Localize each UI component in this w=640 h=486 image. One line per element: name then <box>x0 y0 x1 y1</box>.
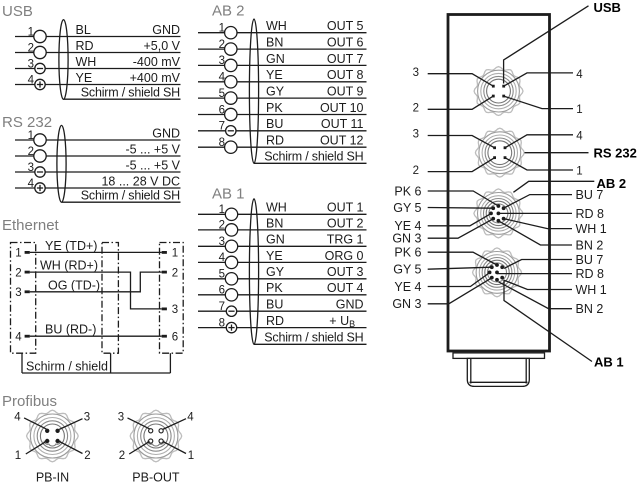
device AB2 pin 6 leader <box>428 191 499 206</box>
AB2 pin 7 wire <box>198 130 367 132</box>
AB1 cable shield ellipse <box>249 199 258 345</box>
svg-text:PK 6: PK 6 <box>394 184 421 198</box>
Ethernet right pin 3 contact <box>162 308 167 311</box>
svg-text:RS 232: RS 232 <box>2 114 52 131</box>
svg-text:2: 2 <box>119 450 125 462</box>
svg-text:1: 1 <box>15 248 21 260</box>
svg-text:3: 3 <box>84 411 90 423</box>
svg-text:GND: GND <box>152 126 180 140</box>
svg-text:3: 3 <box>15 287 21 299</box>
AB2 shield wire <box>254 162 367 164</box>
device RS232 pin 1 leader <box>505 158 573 170</box>
device AB2 pin 1 leader <box>504 219 572 229</box>
svg-text:8: 8 <box>219 317 225 329</box>
RS232 pin 4 contact circle <box>35 183 45 193</box>
device USB pin 4 leader <box>504 73 573 86</box>
svg-text:2: 2 <box>28 42 34 54</box>
PB-OUT pin 4 leader <box>163 419 186 430</box>
svg-text:BU (RD-): BU (RD-) <box>45 323 96 337</box>
svg-text:+ UB: + UB <box>329 314 355 329</box>
Ethernet wire WH (RD+) pin2-pin3 crossover <box>30 272 162 309</box>
device USB connector <box>474 67 523 116</box>
svg-text:OUT 10: OUT 10 <box>320 101 364 115</box>
device AB1 pin 1 leader <box>504 280 572 289</box>
AB2 pin 7 contact circle <box>226 126 236 136</box>
svg-text:GY: GY <box>266 265 285 279</box>
svg-text:18 ... 28 V DC: 18 ... 28 V DC <box>101 174 180 188</box>
svg-text:Profibus: Profibus <box>2 393 57 410</box>
svg-text:BN: BN <box>266 36 283 50</box>
device AB2 connector <box>474 189 523 238</box>
svg-text:OUT 7: OUT 7 <box>327 52 364 66</box>
svg-text:4: 4 <box>187 411 194 423</box>
device AB2 pin 5 leader <box>428 207 494 210</box>
svg-text:4: 4 <box>15 331 22 343</box>
svg-text:OUT 1: OUT 1 <box>327 201 364 215</box>
RS232 cable shield ellipse <box>57 125 66 202</box>
device AB2 pin 3 leader <box>428 219 494 238</box>
svg-text:TRG 1: TRG 1 <box>327 233 364 247</box>
RS232 pin 4 plus symbol <box>37 187 43 189</box>
AB2 pin 1 wire <box>198 32 367 34</box>
svg-text:6: 6 <box>172 331 178 343</box>
USB pin 4 plus symbol <box>37 84 43 86</box>
svg-text:4: 4 <box>576 69 583 81</box>
PB-IN pin 2 leader <box>59 441 82 453</box>
PB-IN pin 3 leader <box>59 419 82 430</box>
PB-IN pin 2 <box>55 439 59 443</box>
svg-text:5: 5 <box>219 269 225 281</box>
svg-text:BU 7: BU 7 <box>576 188 604 202</box>
AB1 shield wire <box>254 343 367 345</box>
svg-text:AB 1: AB 1 <box>212 186 245 203</box>
device RS232 label leader <box>525 152 589 154</box>
svg-text:WH 1: WH 1 <box>576 222 607 236</box>
svg-text:PK: PK <box>266 101 283 115</box>
svg-text:USB: USB <box>594 0 621 15</box>
svg-text:OUT 11: OUT 11 <box>321 117 364 131</box>
svg-text:7: 7 <box>219 301 225 313</box>
device AB1 pin 8 leader <box>497 273 572 275</box>
AB1 pin 3 contact circle <box>225 240 237 252</box>
AB1 pin 3 wire <box>198 245 367 247</box>
svg-text:3: 3 <box>219 236 225 248</box>
svg-text:2: 2 <box>413 165 419 177</box>
svg-text:BN: BN <box>266 216 283 230</box>
Ethernet middle coupler box <box>102 243 118 354</box>
AB2 pin 2 contact circle <box>225 43 237 55</box>
svg-text:OUT 9: OUT 9 <box>327 85 364 99</box>
svg-text:BL: BL <box>76 23 91 37</box>
svg-text:2: 2 <box>413 103 419 115</box>
PB-OUT pin 1 leader <box>163 441 186 453</box>
Ethernet wire YE (TD+) pin1-pin1 <box>30 251 162 253</box>
svg-text:ORG 0: ORG 0 <box>325 249 364 263</box>
device body outline <box>448 15 550 352</box>
svg-text:OUT 5: OUT 5 <box>327 19 364 33</box>
RS232 pin 2 contact circle <box>34 150 46 162</box>
svg-text:GND: GND <box>152 23 180 37</box>
device plug bottom line <box>470 381 528 383</box>
USB pin 3 contact circle <box>35 63 45 73</box>
RS232 shield wire <box>62 201 181 203</box>
USB pin 3 minus symbol <box>37 68 43 70</box>
AB2 pin 6 wire <box>198 114 367 116</box>
device AB2 pin 2 leader <box>498 221 572 245</box>
svg-text:RD: RD <box>266 134 284 148</box>
device AB1 pin 2 leader <box>499 282 573 309</box>
Ethernet left connector box <box>11 243 36 354</box>
svg-text:WH 1: WH 1 <box>576 283 607 297</box>
Ethernet shield wire right drop <box>169 353 171 373</box>
device AB1 pin 4 leader <box>428 273 490 287</box>
svg-text:OUT 8: OUT 8 <box>327 68 364 82</box>
svg-text:3: 3 <box>413 129 419 141</box>
svg-text:3: 3 <box>118 411 124 423</box>
svg-text:GY 5: GY 5 <box>393 263 421 277</box>
svg-text:1: 1 <box>172 248 178 260</box>
Ethernet shield wire left drop <box>21 353 23 373</box>
Profibus PB-OUT connector body <box>130 410 182 462</box>
AB2 cable shield ellipse <box>249 19 258 163</box>
device AB1 pin 5 leader <box>428 267 492 269</box>
svg-text:1: 1 <box>576 166 582 178</box>
PB-IN pin 4 leader <box>24 418 46 429</box>
Ethernet shield wire horizontal <box>22 372 170 374</box>
device USB pin 1 leader <box>504 96 573 109</box>
AB2 pin 7 minus symbol <box>228 130 234 132</box>
RS232 pin 1 contact circle <box>34 134 46 146</box>
svg-text:BU 7: BU 7 <box>576 253 604 267</box>
AB1 pin 6 wire <box>198 294 367 296</box>
svg-text:GN 3: GN 3 <box>392 297 421 311</box>
svg-text:OUT 12: OUT 12 <box>320 134 364 148</box>
PB-IN pin 3 <box>55 429 59 433</box>
RS232 pin 3 wire <box>15 171 181 173</box>
svg-text:AB 2: AB 2 <box>212 3 245 20</box>
svg-text:RD 8: RD 8 <box>576 267 605 281</box>
svg-text:3: 3 <box>28 58 34 70</box>
device AB2 pin 8 leader <box>498 212 572 214</box>
svg-text:2: 2 <box>84 450 90 462</box>
device AB1 label leader <box>504 280 592 362</box>
AB1 pin 7 contact circle <box>226 306 236 316</box>
AB2 pin 3 wire <box>198 64 367 66</box>
device AB2 pin 4 leader <box>428 214 491 226</box>
svg-text:1: 1 <box>576 104 582 116</box>
svg-text:GY: GY <box>266 85 285 99</box>
Ethernet shield wire middle drop <box>110 353 112 373</box>
AB1 pin 1 contact circle <box>225 208 237 220</box>
AB2 pin 1 contact circle <box>225 27 237 39</box>
Ethernet wire OG (TD-) pin3-pin2 crossover <box>30 272 162 292</box>
svg-text:1: 1 <box>28 130 34 142</box>
PB-OUT pin 2 <box>149 439 153 443</box>
AB1 pin 5 contact circle <box>225 273 237 285</box>
svg-text:PK: PK <box>266 281 283 295</box>
Ethernet wire BU (RD-) pin4-pin6 <box>30 335 162 337</box>
PB-IN pin 1 leader <box>26 441 46 454</box>
Ethernet left pin 1 contact <box>25 251 30 254</box>
device AB2 label leader <box>513 181 594 192</box>
AB1 pin 7 wire <box>198 310 367 312</box>
svg-text:BN 2: BN 2 <box>576 302 604 316</box>
AB2 pin 4 contact circle <box>225 76 237 88</box>
Ethernet left pin 4 contact <box>25 335 30 338</box>
svg-text:4: 4 <box>576 131 583 143</box>
USB pin 2 wire <box>15 52 181 54</box>
svg-text:4: 4 <box>28 74 35 86</box>
USB pin 4 wire <box>15 84 181 86</box>
PB-IN pin 4 <box>45 429 49 433</box>
svg-text:BU: BU <box>266 298 283 312</box>
Ethernet right pin 6 contact <box>162 335 167 338</box>
svg-text:USB: USB <box>2 3 33 20</box>
svg-text:OUT 3: OUT 3 <box>327 265 364 279</box>
device RS232 pin 4 leader <box>505 135 573 148</box>
svg-text:RS 232: RS 232 <box>594 146 637 161</box>
AB1 pin 6 contact circle <box>225 289 237 301</box>
Profibus PB-IN connector body <box>27 410 79 462</box>
USB cable shield ellipse <box>59 20 68 100</box>
device RS232 pin 3 leader <box>428 136 495 148</box>
device plug right thread line <box>525 358 527 383</box>
RS232 pin 3 contact circle <box>35 167 45 177</box>
svg-text:-400 mV: -400 mV <box>133 55 181 69</box>
svg-text:YE: YE <box>266 68 283 82</box>
AB1 pin 8 plus symbol <box>228 327 234 329</box>
RS232 pin 3 minus symbol <box>37 171 43 173</box>
AB2 pin 3 contact circle <box>225 59 237 71</box>
USB pin 1 wire <box>15 36 181 38</box>
device bottom plug <box>467 358 529 386</box>
svg-text:-5 ... +5 V: -5 ... +5 V <box>125 142 180 156</box>
device RS232 pin 2 leader <box>428 158 495 172</box>
svg-text:WH: WH <box>266 19 287 33</box>
device bottom flange <box>453 353 545 359</box>
svg-text:WH: WH <box>266 201 287 215</box>
svg-text:2: 2 <box>15 267 21 279</box>
svg-text:Schirm / shield SH: Schirm / shield SH <box>81 86 180 100</box>
svg-text:OUT 6: OUT 6 <box>327 36 364 50</box>
PB-OUT pin 3 leader <box>128 418 150 429</box>
svg-text:1: 1 <box>15 450 21 462</box>
USB pin 2 contact circle <box>34 46 46 58</box>
svg-text:7: 7 <box>219 121 225 133</box>
AB1 pin 2 contact circle <box>225 224 237 236</box>
USB shield wire <box>64 98 181 100</box>
device USB label leader <box>504 6 589 84</box>
svg-text:WH (RD+): WH (RD+) <box>40 259 98 273</box>
device USB pin 3 leader <box>428 74 494 87</box>
device plug left thread line <box>470 358 472 383</box>
AB2 pin 8 contact circle <box>225 141 237 153</box>
svg-text:6: 6 <box>219 285 225 297</box>
device AB1 pin 3 leader <box>428 278 492 304</box>
svg-text:4: 4 <box>14 411 21 423</box>
svg-text:GN: GN <box>266 52 285 66</box>
USB pin 4 contact circle <box>35 79 45 89</box>
svg-text:OUT 4: OUT 4 <box>327 281 364 295</box>
svg-text:OUT 2: OUT 2 <box>327 216 364 230</box>
svg-text:+400 mV: +400 mV <box>130 71 181 85</box>
svg-text:Schirm / shield: Schirm / shield <box>26 359 108 373</box>
svg-text:GN 3: GN 3 <box>392 232 421 246</box>
Ethernet right connector box <box>160 243 184 354</box>
svg-text:RD: RD <box>76 39 94 53</box>
device RS232 connector <box>475 128 524 177</box>
AB2 pin 2 wire <box>198 48 367 50</box>
device AB1 pin 7 leader <box>504 260 572 269</box>
svg-text:PB-IN: PB-IN <box>36 471 69 485</box>
svg-text:PB-OUT: PB-OUT <box>132 471 180 485</box>
svg-text:GN: GN <box>266 233 285 247</box>
svg-text:4: 4 <box>28 178 35 190</box>
svg-text:+5,0 V: +5,0 V <box>144 39 181 53</box>
AB1 pin 5 wire <box>198 278 367 280</box>
Ethernet left pin 2 contact <box>25 271 30 274</box>
Ethernet right pin 1 contact <box>162 251 167 254</box>
USB pin 1 contact circle <box>34 30 46 42</box>
PB-OUT pin 2 leader <box>129 441 149 454</box>
RS232 pin 4 wire <box>15 187 181 189</box>
svg-text:RD: RD <box>266 314 284 328</box>
svg-text:Ethernet: Ethernet <box>2 217 60 234</box>
AB2 pin 5 contact circle <box>225 92 237 104</box>
device USB pin 2 leader <box>428 96 494 109</box>
svg-text:1: 1 <box>28 26 34 38</box>
AB1 pin 8 wire <box>198 327 367 329</box>
device AB1 pin 6 leader <box>428 252 497 265</box>
svg-text:2: 2 <box>219 220 225 232</box>
svg-text:3: 3 <box>413 67 419 79</box>
svg-text:GND: GND <box>336 298 364 312</box>
Ethernet right pin 2 contact <box>162 271 167 274</box>
AB2 pin 6 contact circle <box>225 108 237 120</box>
AB2 pin 5 wire <box>198 97 367 99</box>
svg-text:4: 4 <box>219 252 226 264</box>
Ethernet left pin 3 contact <box>25 290 30 293</box>
USB pin 3 wire <box>15 68 181 70</box>
PB-OUT pin 1 <box>159 439 163 443</box>
AB1 pin 4 wire <box>198 261 367 263</box>
AB1 pin 2 wire <box>198 229 367 231</box>
svg-text:YE (TD+): YE (TD+) <box>45 239 97 253</box>
device AB1 connector <box>473 248 522 297</box>
svg-text:2: 2 <box>28 146 34 158</box>
AB1 pin 4 contact circle <box>225 256 237 268</box>
svg-text:OG (TD-): OG (TD-) <box>48 278 100 292</box>
svg-text:BU: BU <box>266 117 283 131</box>
svg-text:-5 ... +5 V: -5 ... +5 V <box>125 158 180 172</box>
svg-text:GY 5: GY 5 <box>393 201 421 215</box>
RS232 pin 1 wire <box>15 139 181 141</box>
svg-text:YE: YE <box>266 249 283 263</box>
svg-text:BN 2: BN 2 <box>576 238 604 252</box>
PB-OUT pin 4 <box>159 429 163 433</box>
svg-text:Schirm / shield SH: Schirm / shield SH <box>81 189 180 203</box>
svg-text:1: 1 <box>188 450 194 462</box>
AB1 pin 7 minus symbol <box>228 310 234 312</box>
AB1 pin 1 wire <box>198 213 367 215</box>
AB2 pin 8 wire <box>198 146 367 148</box>
svg-text:2: 2 <box>172 267 178 279</box>
PB-OUT pin 3 <box>149 429 153 433</box>
svg-text:3: 3 <box>28 162 34 174</box>
AB2 pin 4 wire <box>198 81 367 83</box>
svg-text:RD 8: RD 8 <box>576 207 605 221</box>
svg-text:PK 6: PK 6 <box>394 246 421 260</box>
PB-IN pin 1 <box>45 439 49 443</box>
svg-text:YE: YE <box>76 71 93 85</box>
device AB2 pin 7 leader <box>504 195 572 209</box>
svg-text:AB 1: AB 1 <box>594 354 624 369</box>
svg-text:YE 4: YE 4 <box>394 280 421 294</box>
svg-text:WH: WH <box>76 55 97 69</box>
AB1 pin 8 contact circle <box>226 322 236 332</box>
svg-text:Schirm / shield SH: Schirm / shield SH <box>264 331 363 345</box>
svg-text:Schirm / shield SH: Schirm / shield SH <box>264 150 363 164</box>
svg-text:1: 1 <box>219 204 225 216</box>
svg-text:3: 3 <box>172 304 178 316</box>
RS232 pin 2 wire <box>15 155 181 157</box>
